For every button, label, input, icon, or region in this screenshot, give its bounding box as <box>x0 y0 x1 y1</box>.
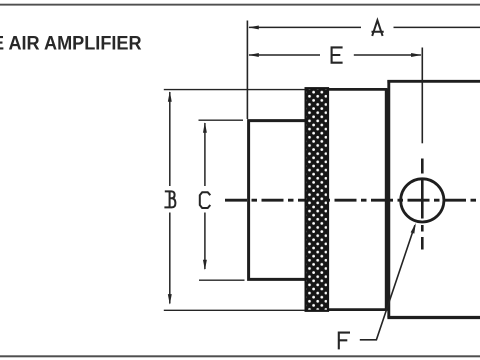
hole vertical centerline <box>421 159 424 250</box>
extension line right (E, hole axis) <box>421 48 423 144</box>
dimension B top arrow <box>168 91 172 102</box>
label F <box>339 333 350 350</box>
label A <box>372 20 384 36</box>
dimension E left arrow <box>248 53 258 57</box>
extension line C bottom <box>199 279 245 281</box>
svg-text:E AIR AMPLIFIER: E AIR AMPLIFIER <box>0 34 142 55</box>
body right section bottom edge <box>387 316 480 319</box>
body middle section right edge <box>385 89 388 310</box>
dimension A line <box>249 26 480 28</box>
body left section (small diameter) <box>249 121 306 280</box>
label E <box>332 47 343 62</box>
label B <box>164 191 175 207</box>
body right section top edge <box>387 80 480 83</box>
dimension C line <box>204 123 206 269</box>
body middle section bottom edge <box>306 308 387 311</box>
dimension E right arrow <box>411 53 422 57</box>
leader line F <box>360 225 415 339</box>
extension line B top <box>164 89 305 91</box>
hole circle <box>401 179 444 222</box>
dimension E line <box>249 54 421 56</box>
dimension C bottom arrow <box>203 260 207 271</box>
extension line left (A/E) <box>246 21 248 120</box>
body middle section top edge <box>306 88 387 91</box>
extension line C top <box>199 119 244 121</box>
centerline horizontal (part axis) <box>225 199 480 202</box>
dimension B bottom arrow <box>168 294 172 305</box>
knurled ring <box>306 88 328 311</box>
page bottom rule <box>0 355 480 357</box>
leader F arrowhead <box>411 223 416 234</box>
body right section left edge <box>387 80 390 317</box>
dimension B line <box>169 92 171 304</box>
label C <box>200 192 211 208</box>
extension line B bottom <box>164 309 305 311</box>
page top rule <box>0 4 480 6</box>
dimension C top arrow <box>203 122 207 133</box>
dimension A left arrow <box>248 25 258 29</box>
